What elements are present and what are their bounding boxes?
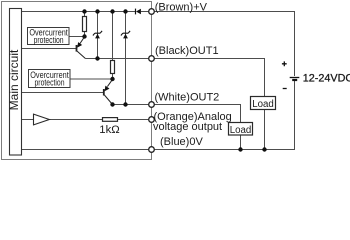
- svg-text:protection: protection: [35, 77, 65, 87]
- svg-text:(Blue)0V: (Blue)0V: [160, 136, 203, 148]
- svg-text:Load: Load: [230, 125, 252, 136]
- svg-text:protection: protection: [34, 35, 64, 45]
- svg-text:(Black)OUT1: (Black)OUT1: [155, 45, 219, 57]
- svg-text:(Brown)+V: (Brown)+V: [155, 1, 208, 13]
- svg-text:(White)OUT2: (White)OUT2: [155, 92, 220, 104]
- svg-text:12-24VDC: 12-24VDC: [303, 72, 350, 84]
- svg-text:Main circuit: Main circuit: [7, 49, 21, 110]
- svg-text:Load: Load: [252, 99, 274, 110]
- svg-text:voltage output: voltage output: [153, 121, 222, 133]
- svg-text:1kΩ: 1kΩ: [99, 124, 119, 136]
